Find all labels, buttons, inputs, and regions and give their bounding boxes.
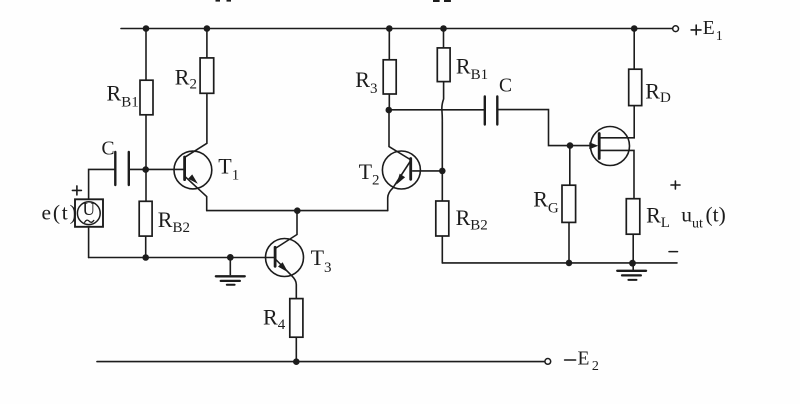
svg-text:RD: RD [645,78,671,106]
svg-text:T2: T2 [359,159,380,189]
svg-text:R3: R3 [355,67,377,97]
svg-text:E2: E2 [578,349,599,375]
svg-text:RB2: RB2 [456,205,488,234]
svg-text:C: C [102,138,115,159]
svg-text:T3: T3 [311,245,332,276]
svg-text:RL: RL [646,202,670,231]
svg-text:E1: E1 [703,18,723,44]
svg-text:R2: R2 [175,65,197,93]
svg-text:RB1: RB1 [107,81,139,111]
svg-text:e(t): e(t) [42,200,79,224]
svg-text:R4: R4 [263,305,286,333]
svg-text:RG: RG [533,187,559,217]
svg-text:T1: T1 [218,154,239,184]
svg-text:RB1: RB1 [456,54,488,84]
svg-text:RB2: RB2 [158,207,190,236]
svg-text:U: U [82,199,95,219]
svg-text:C: C [499,76,512,97]
svg-text:uut(t): uut(t) [681,202,725,231]
